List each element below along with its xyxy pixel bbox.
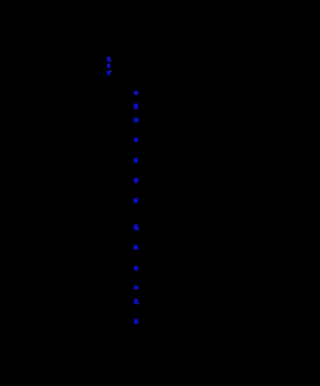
- list link 1: [134, 91, 138, 95]
- list link 2: [134, 104, 138, 109]
- list link 6 right tail: [138, 179, 140, 181]
- list link 5: [134, 158, 138, 163]
- list link 10: [134, 266, 138, 271]
- link block B faint right tail: [109, 66, 112, 68]
- link block A faint right smudge: [109, 58, 112, 59]
- list link 12: [134, 299, 138, 304]
- list link 11: [134, 286, 138, 290]
- list link 7: [134, 198, 138, 203]
- list link 11 bright dot: [138, 287, 139, 288]
- list link 4: [134, 138, 138, 142]
- list link 13: [134, 319, 138, 324]
- list link 9: [134, 245, 139, 250]
- link block C (top cluster line 3): [107, 71, 110, 75]
- list link 3: [134, 118, 138, 123]
- list link 13 bottom-right tail: [138, 322, 139, 323]
- list link 10 faint right tail: [138, 268, 139, 270]
- link block A bright dot: [110, 61, 111, 62]
- list link 3 right tail: [138, 119, 139, 120]
- link block A (top cluster line 1): [107, 57, 110, 62]
- link block B (top cluster line 2): [107, 64, 110, 68]
- list link 8 bottom-right bump: [138, 228, 139, 230]
- link block C bright dot: [110, 71, 112, 72]
- list link 6: [134, 178, 138, 183]
- list link 8: [134, 225, 138, 231]
- list link 12 bright dot: [138, 303, 139, 304]
